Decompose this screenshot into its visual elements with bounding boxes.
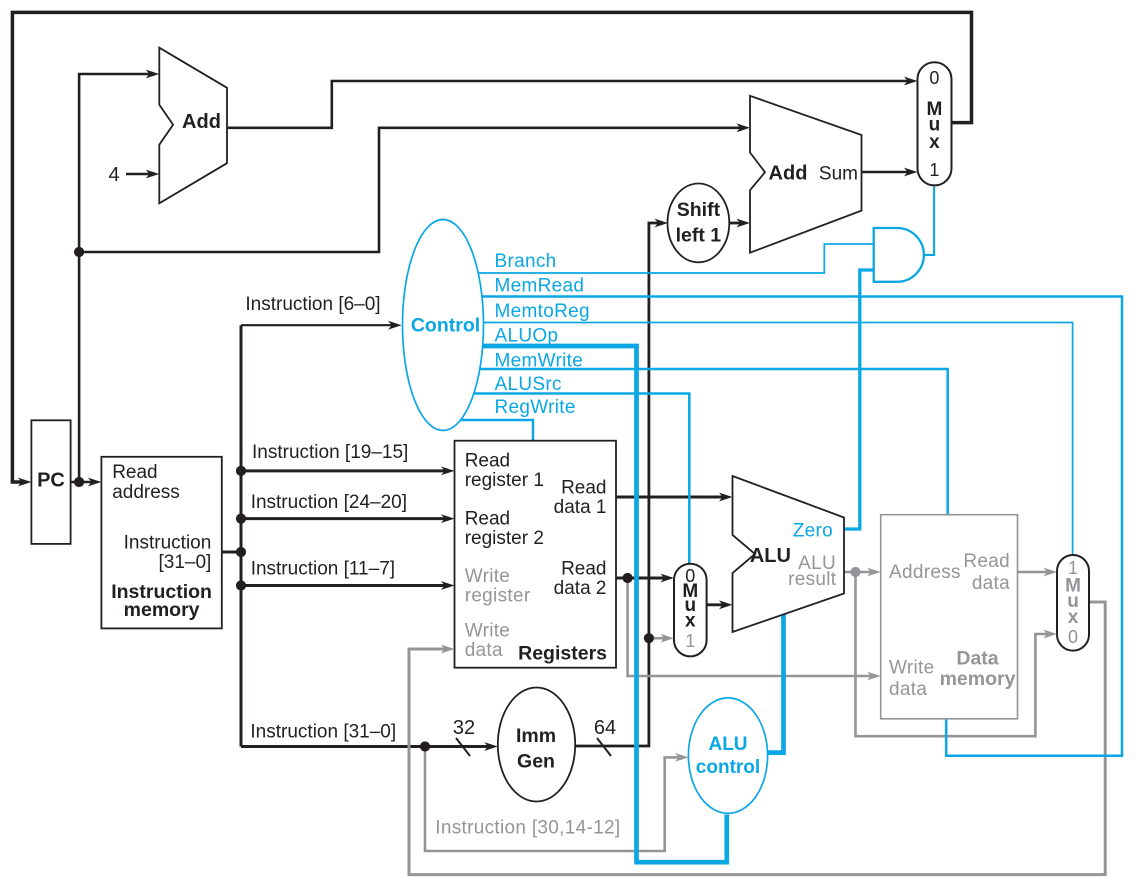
arrowhead read data 1 into ALU bbox=[719, 493, 733, 502]
svg-text:32: 32 bbox=[453, 717, 475, 739]
wire Branch control signal bbox=[445, 244, 874, 273]
svg-text:ALUOp: ALUOp bbox=[495, 326, 559, 347]
mux PCSrc (top right) bbox=[918, 62, 952, 185]
junction instruction [31-0] at imm gen bbox=[420, 741, 430, 751]
junction read data 2 bbox=[623, 573, 633, 583]
arrowhead ALU result into address (gray) bbox=[867, 568, 881, 577]
svg-text:x: x bbox=[929, 132, 940, 153]
arrowhead mux output into ALU bbox=[719, 600, 733, 609]
wire Instruction [30,14-12] to ALU control (inactive) bbox=[425, 747, 682, 852]
mux ALUSrc (middle) bbox=[674, 564, 707, 657]
arrowhead into PC bbox=[18, 478, 32, 487]
mux MemtoReg (right) bbox=[1057, 555, 1089, 651]
arrowhead into ALUSrc mux 1 (gray) bbox=[661, 634, 675, 643]
arrowhead into ALU control (gray) bbox=[675, 753, 689, 762]
svg-text:64: 64 bbox=[594, 717, 616, 739]
arrowhead into Add top input bbox=[146, 70, 160, 79]
junction PC to branch adder bbox=[74, 247, 84, 257]
svg-text:Write: Write bbox=[465, 566, 510, 587]
svg-text:4: 4 bbox=[109, 164, 120, 186]
AND gate (branch and zero) bbox=[874, 228, 924, 282]
wire ALU result bypass to write-back mux 0 (inactive) bbox=[856, 572, 1051, 736]
wire PC to instruction memory read address bbox=[71, 481, 94, 484]
wire Add output to mux 0 bbox=[227, 81, 910, 128]
junction instruction bus at [11-7] bbox=[236, 580, 246, 590]
svg-text:register 2: register 2 bbox=[465, 528, 544, 549]
svg-text:MemWrite: MemWrite bbox=[495, 351, 584, 372]
wire shift left 1 to branch adder bbox=[720, 222, 743, 225]
junction instruction bus feed bbox=[236, 547, 246, 557]
svg-text:left 1: left 1 bbox=[676, 224, 722, 246]
register PC bbox=[31, 420, 70, 544]
svg-text:x: x bbox=[685, 611, 696, 632]
junction instruction bus at [19-15] bbox=[236, 466, 246, 476]
svg-text:MemRead: MemRead bbox=[495, 276, 585, 297]
arrowhead into read register 2 bbox=[441, 514, 455, 523]
wire branch adder Sum to mux 1 bbox=[862, 171, 911, 174]
svg-text:register: register bbox=[465, 586, 531, 607]
wire constant 4 input bbox=[126, 173, 151, 176]
wire Instruction [19-15] to Read register 1 bbox=[241, 469, 447, 472]
svg-text:Read: Read bbox=[112, 462, 157, 483]
svg-text:Shift: Shift bbox=[677, 199, 721, 221]
svg-text:Instruction [30,14-12]: Instruction [30,14-12] bbox=[435, 818, 620, 839]
adder Add (PC+4) bbox=[159, 48, 227, 204]
svg-text:Write: Write bbox=[465, 621, 510, 642]
ALU bbox=[733, 476, 845, 632]
svg-text:1: 1 bbox=[685, 631, 695, 651]
svg-text:ALU: ALU bbox=[750, 545, 791, 567]
wire data memory read data to write-back mux 1 (inactive) bbox=[1018, 571, 1051, 574]
arrowhead into PCSrc mux 1 bbox=[904, 168, 918, 177]
svg-text:Add: Add bbox=[182, 111, 221, 133]
wire ALUOp control signal bbox=[445, 346, 727, 862]
wire MemWrite control signal bbox=[445, 369, 948, 516]
wire ALU mux output to ALU bbox=[707, 603, 726, 606]
wire write-back mux output to Registers write data (inactive) bbox=[409, 602, 1105, 875]
svg-text:memory: memory bbox=[124, 599, 200, 621]
svg-text:control: control bbox=[696, 757, 760, 778]
wire Zero flag to AND gate bbox=[844, 270, 874, 529]
wire ALU result to data memory address (inactive) bbox=[844, 571, 874, 574]
svg-text:Instruction: Instruction bbox=[124, 533, 212, 554]
svg-text:Registers: Registers bbox=[518, 643, 607, 665]
registers box bbox=[455, 441, 617, 668]
wire Instruction [6-0] to Control bbox=[241, 324, 394, 326]
svg-text:register 1: register 1 bbox=[465, 470, 544, 491]
wire MemtoReg control signal bbox=[445, 323, 1073, 557]
wire Read data 2 to data memory write data (inactive) bbox=[628, 578, 874, 676]
svg-text:Instruction [19–15]: Instruction [19–15] bbox=[252, 442, 408, 463]
svg-text:Read: Read bbox=[963, 551, 1010, 572]
svg-text:Read: Read bbox=[561, 478, 606, 499]
wire instruction memory output to instruction bus bbox=[222, 551, 241, 554]
svg-text:MemtoReg: MemtoReg bbox=[495, 301, 590, 322]
wire ALUSrc control signal bbox=[445, 394, 689, 565]
arrowhead shift output into branch adder bbox=[737, 219, 751, 228]
svg-text:Zero: Zero bbox=[793, 520, 833, 541]
data memory box bbox=[881, 515, 1018, 719]
wire AND gate output to PCSrc mux select bbox=[919, 187, 934, 255]
svg-text:data: data bbox=[889, 679, 927, 700]
arrowhead into imm gen bbox=[484, 742, 498, 751]
wire Imm Gen output to shift-left-1 and ALU mux bbox=[536, 223, 661, 746]
svg-text:address: address bbox=[112, 482, 180, 503]
wire MemRead control signal bbox=[445, 297, 1122, 756]
instruction memory box bbox=[101, 457, 221, 629]
arrowhead into data memory write data (gray) bbox=[867, 672, 881, 681]
svg-text:Read: Read bbox=[561, 559, 606, 580]
svg-text:0: 0 bbox=[929, 68, 939, 88]
arrowhead into branch adder top bbox=[737, 123, 751, 132]
svg-text:Instruction [11–7]: Instruction [11–7] bbox=[251, 559, 395, 580]
arrowhead into read address bbox=[88, 478, 102, 487]
wire PC to Add (PC+4) bbox=[79, 74, 151, 482]
wire RegWrite control signal bbox=[445, 420, 533, 442]
svg-text:Control: Control bbox=[411, 315, 480, 337]
wire immediate to ALU mux 1 input (inactive) bbox=[649, 637, 668, 640]
svg-text:0: 0 bbox=[1068, 627, 1078, 647]
junction PC output bbox=[74, 477, 84, 487]
adder Add Sum (branch target) bbox=[750, 96, 862, 253]
wire PC-update loop (mux output to PC) bbox=[12, 12, 971, 482]
svg-text:data 1: data 1 bbox=[554, 497, 607, 518]
control unit ellipse bbox=[403, 220, 484, 431]
svg-text:Branch: Branch bbox=[495, 251, 557, 272]
bus width slash 64 bbox=[597, 738, 611, 756]
svg-text:x: x bbox=[1068, 607, 1079, 628]
arrowhead into shift left 1 bbox=[655, 219, 669, 228]
svg-text:Instruction [6–0]: Instruction [6–0] bbox=[245, 294, 380, 315]
shift left 1 ellipse bbox=[668, 184, 730, 263]
wire instruction bus vertical bbox=[240, 325, 243, 746]
svg-text:RegWrite: RegWrite bbox=[495, 397, 576, 418]
svg-text:Instruction [31–0]: Instruction [31–0] bbox=[250, 722, 396, 743]
junction immediate at ALU mux bbox=[644, 633, 654, 643]
svg-text:data: data bbox=[465, 640, 503, 661]
arrowhead into ALUSrc mux 0 bbox=[661, 574, 675, 583]
wire Read data 2 to ALU mux bbox=[616, 577, 667, 580]
wire Instruction [11-7] to Write register bbox=[241, 584, 447, 587]
svg-text:[31–0]: [31–0] bbox=[158, 552, 211, 573]
bus width slash 32 bbox=[456, 738, 470, 756]
svg-text:Read: Read bbox=[465, 451, 510, 472]
junction ALU result bbox=[850, 567, 860, 577]
imm gen ellipse bbox=[498, 688, 575, 802]
svg-text:Write: Write bbox=[889, 658, 934, 679]
svg-text:Add: Add bbox=[769, 163, 808, 185]
arrowhead into write data (gray) bbox=[441, 645, 455, 654]
svg-text:result: result bbox=[788, 569, 837, 590]
arrowhead ALU result into mux 0 (gray) bbox=[1044, 630, 1058, 639]
wire ALU control to ALU operation input bbox=[756, 612, 784, 753]
wire Instruction [31-0] to Imm Gen bbox=[241, 745, 491, 748]
junction instruction bus at [24-20] bbox=[236, 514, 246, 524]
arrowhead into Control bbox=[388, 321, 402, 330]
arrowhead constant 4 into Add bbox=[146, 170, 160, 179]
svg-text:Gen: Gen bbox=[517, 751, 555, 773]
svg-text:Read: Read bbox=[465, 509, 510, 530]
svg-text:ALUSrc: ALUSrc bbox=[495, 374, 562, 395]
svg-text:data 2: data 2 bbox=[554, 578, 607, 599]
svg-text:data: data bbox=[972, 573, 1010, 594]
svg-text:ALU: ALU bbox=[708, 734, 747, 755]
svg-text:memory: memory bbox=[940, 668, 1016, 690]
arrowhead into write register bbox=[441, 581, 455, 590]
arrowhead into read register 1 bbox=[441, 467, 455, 476]
arrowhead into PCSrc mux 0 bbox=[904, 77, 918, 86]
arrowhead read data into mux 1 (gray) bbox=[1044, 568, 1058, 577]
wire Read data 1 to ALU bbox=[616, 496, 726, 499]
svg-text:Address: Address bbox=[889, 562, 961, 583]
wire PC to branch adder bbox=[79, 128, 743, 252]
svg-text:1: 1 bbox=[929, 160, 939, 180]
svg-text:Sum: Sum bbox=[819, 164, 858, 185]
wire Instruction [24-20] to Read register 2 bbox=[241, 517, 447, 520]
svg-text:Imm: Imm bbox=[516, 725, 556, 747]
svg-text:PC: PC bbox=[37, 470, 65, 492]
ALU control ellipse bbox=[688, 698, 767, 813]
svg-text:Instruction [24–20]: Instruction [24–20] bbox=[251, 492, 407, 513]
svg-text:Data: Data bbox=[956, 648, 998, 670]
